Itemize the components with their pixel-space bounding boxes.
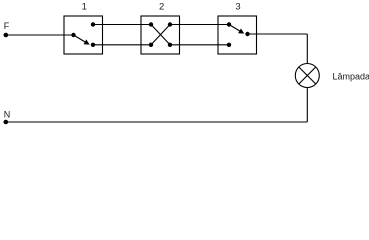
wire S1 lower to S2 lower-left	[93, 44, 151, 46]
wire F to switch 1 common	[6, 34, 74, 36]
wire S2 lower to S3 lower-left	[170, 44, 229, 46]
wire right rail down to lamp	[306, 34, 308, 64]
switch S2 upper-right terminal	[168, 22, 172, 26]
svg-text:Lâmpada: Lâmpada	[333, 72, 369, 82]
wire S1 upper to S2 upper-left	[93, 24, 151, 26]
switch S2 lower-left terminal	[149, 43, 153, 47]
switch S3 common terminal	[245, 32, 249, 36]
wire lamp down to N rail	[306, 88, 308, 123]
wire S2 upper to S3 upper-left	[170, 24, 229, 26]
switch S2 box (crossover)	[141, 16, 180, 54]
switch S2 lower-right terminal	[168, 43, 172, 47]
node N terminal	[4, 120, 9, 125]
switch S2 upper-left terminal	[149, 22, 153, 26]
switch S3 lower throw terminal	[227, 43, 231, 47]
wire N rail	[6, 121, 308, 123]
switch S1 lower throw terminal	[91, 43, 95, 47]
switch S2 cross link upper-left to lower-right	[151, 25, 170, 45]
switch S1 blade (arrow to lower throw)	[74, 35, 89, 44]
switch S3 box	[218, 16, 257, 54]
svg-text:2: 2	[159, 1, 164, 12]
switch S1 common terminal	[71, 33, 75, 37]
svg-text:1: 1	[82, 1, 87, 12]
node F terminal	[4, 33, 9, 38]
switch S3 upper throw terminal	[227, 22, 231, 26]
wire S3 common to right rail	[248, 33, 308, 35]
switch S2 cross link lower-left to upper-right	[151, 25, 170, 45]
lamp L1	[295, 64, 319, 88]
switch S1 upper throw terminal	[91, 22, 95, 26]
svg-text:N: N	[4, 109, 11, 119]
switch S1 box	[64, 16, 103, 54]
switch S3 blade (arrow to common)	[229, 25, 243, 34]
svg-text:3: 3	[235, 1, 240, 12]
svg-text:F: F	[4, 21, 10, 31]
